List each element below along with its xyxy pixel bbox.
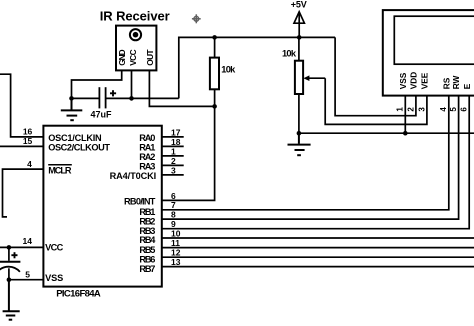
svg-text:10k: 10k xyxy=(282,49,297,59)
LCD module body (clipped at right edge) xyxy=(383,10,474,96)
svg-text:MCLR: MCLR xyxy=(48,165,72,175)
node: VCC junction xyxy=(129,96,134,101)
wire: LCD pin 4 to PIC RB1 xyxy=(162,96,449,210)
node: VCC/C2 junction xyxy=(7,245,12,250)
svg-text:RB4: RB4 xyxy=(139,235,156,245)
svg-text:10k: 10k xyxy=(221,65,236,75)
plus sign of C1 xyxy=(110,90,116,96)
ground symbol near 47uF xyxy=(61,98,83,120)
wire: riser from VCC node up to +5V rail xyxy=(179,37,335,98)
PIC16F84A chip body U1 xyxy=(43,126,161,287)
wire: pin 15 OSC2 to left edge xyxy=(0,145,43,147)
svg-text:11: 11 xyxy=(171,238,180,248)
capacitor C2 curved plate xyxy=(0,267,20,272)
wire: IR GND pin to ground xyxy=(72,70,122,98)
wire: potentiometer RV1 top lead xyxy=(298,37,300,60)
svg-text:3: 3 xyxy=(171,165,176,175)
svg-text:RB5: RB5 xyxy=(139,245,155,255)
wire: pin 18 RA1 stub xyxy=(162,145,184,147)
svg-text:RA0: RA0 xyxy=(139,133,155,143)
wire: pin 17 RA0 stub xyxy=(162,136,184,138)
resistor R1 body xyxy=(210,58,219,90)
wire: potentiometer bottom lead xyxy=(298,94,300,133)
svg-text:RA1: RA1 xyxy=(139,143,155,153)
potentiometer RV1 body xyxy=(295,61,303,94)
svg-text:5: 5 xyxy=(449,107,458,112)
wire: node down to PIC RB0 xyxy=(162,106,215,200)
wire: pin 2 RA3 stub xyxy=(162,164,184,166)
origin marker (crosshair) xyxy=(192,14,201,23)
svg-text:OSC1/CLKIN: OSC1/CLKIN xyxy=(48,133,102,143)
wire: +5V rail down to LCD VDD (pin2) xyxy=(335,37,416,115)
svg-text:2: 2 xyxy=(171,156,176,166)
svg-text:47uF: 47uF xyxy=(91,110,113,120)
wire: IR VCC pin down to +5V node xyxy=(131,70,133,98)
svg-text:RA4/T0CKI: RA4/T0CKI xyxy=(110,171,157,181)
wire: pin 14 VCC to left edge xyxy=(0,246,43,248)
svg-text:RB7: RB7 xyxy=(139,264,155,274)
svg-text:RA3: RA3 xyxy=(139,162,155,172)
capacitor C2 straight plate xyxy=(0,261,20,263)
wire: pin 16 OSC1 to left edge xyxy=(0,74,43,137)
potentiometer wiper arrow xyxy=(308,77,325,79)
wire: LCD pin 1 to ground rail xyxy=(404,96,406,134)
svg-text:18: 18 xyxy=(171,137,181,147)
svg-text:5: 5 xyxy=(25,269,30,279)
ground symbol bottom-left xyxy=(3,280,20,320)
wire: pin 3 RA4 stub xyxy=(162,174,184,176)
node: ground rail junction xyxy=(297,131,302,136)
svg-text:RA2: RA2 xyxy=(139,152,155,162)
svg-text:RS: RS xyxy=(441,77,451,89)
svg-text:4: 4 xyxy=(439,107,448,112)
svg-text:OSC2/CLKOUT: OSC2/CLKOUT xyxy=(48,143,110,153)
svg-text:17: 17 xyxy=(171,127,181,137)
svg-text:VSS: VSS xyxy=(45,273,63,283)
wire: capacitor to VCC node xyxy=(106,97,178,99)
svg-text:OUT: OUT xyxy=(145,49,155,65)
wire: C2 bottom lead xyxy=(8,268,10,279)
svg-text:VDD: VDD xyxy=(409,72,419,90)
node: +5V rail junction xyxy=(297,35,302,40)
capacitor C2 (polarized) top lead xyxy=(8,247,10,260)
wire: IR OUT pin down and right to R1 bottom xyxy=(149,70,214,106)
ground symbol below potentiometer xyxy=(288,133,311,155)
svg-text:16: 16 xyxy=(23,127,33,137)
svg-text:2: 2 xyxy=(406,107,415,112)
svg-text:PIC16F84A: PIC16F84A xyxy=(56,288,101,299)
IR receiver U2 body xyxy=(116,26,156,71)
svg-text:14: 14 xyxy=(23,236,33,246)
svg-text:+5V: +5V xyxy=(291,0,307,9)
wire: resistor R1 top lead xyxy=(214,37,216,57)
node: R1 top on +5V rail xyxy=(212,35,217,40)
power +5V arrow symbol xyxy=(294,12,304,23)
node: ground/cap junction xyxy=(69,96,74,101)
wire: pin 12 RB6 to right edge xyxy=(162,256,474,258)
wire: pin 5 VSS xyxy=(9,279,44,281)
svg-text:VCC: VCC xyxy=(128,49,138,65)
node: LCD pin1 on ground rail xyxy=(403,131,408,136)
wire: pin 10 RB4 to right edge xyxy=(162,237,474,239)
wire: wiper to LCD VEE (pin3) xyxy=(325,78,427,124)
svg-text:VSS: VSS xyxy=(398,72,408,89)
svg-text:10: 10 xyxy=(171,228,181,238)
svg-text:8: 8 xyxy=(171,210,176,220)
wire: resistor R1 bottom lead xyxy=(214,89,216,106)
plus sign of C2 xyxy=(11,252,17,258)
svg-text:RB2: RB2 xyxy=(139,216,155,226)
svg-text:RB0/INT: RB0/INT xyxy=(124,197,156,207)
svg-text:13: 13 xyxy=(171,257,181,267)
svg-text:3: 3 xyxy=(417,107,426,112)
svg-text:4: 4 xyxy=(27,159,32,169)
wire: pin 1 RA2 stub xyxy=(162,155,184,157)
svg-text:1: 1 xyxy=(171,146,176,156)
wire: LCD pin 5 to PIC RB2 xyxy=(162,96,459,220)
wire: pin 11 RB5 to right edge xyxy=(162,247,474,249)
wire: LCD pin 6 to PIC RB3 xyxy=(162,96,469,229)
svg-text:15: 15 xyxy=(23,136,33,146)
svg-text:IR Receiver: IR Receiver xyxy=(100,9,170,24)
svg-text:VEE: VEE xyxy=(420,72,430,89)
node: VSS/ground junction xyxy=(7,277,12,282)
LCD screen inner rect xyxy=(394,16,474,64)
wire: pin 4 MCLR stub xyxy=(3,169,44,217)
node: R1/OUT/RB0 junction xyxy=(212,104,217,109)
svg-text:VCC: VCC xyxy=(45,243,64,253)
svg-text:E: E xyxy=(462,83,472,89)
svg-text:6: 6 xyxy=(460,107,469,112)
capacitor C1 47uF plates xyxy=(98,87,100,108)
svg-text:1: 1 xyxy=(396,107,405,112)
svg-text:RW: RW xyxy=(451,75,461,89)
svg-text:GND: GND xyxy=(117,49,127,65)
wire: ground rail to LCD VSS and right edge xyxy=(299,132,474,134)
wire: node to capacitor xyxy=(72,97,99,99)
wire: pin 13 RB7 to right edge xyxy=(162,266,474,268)
